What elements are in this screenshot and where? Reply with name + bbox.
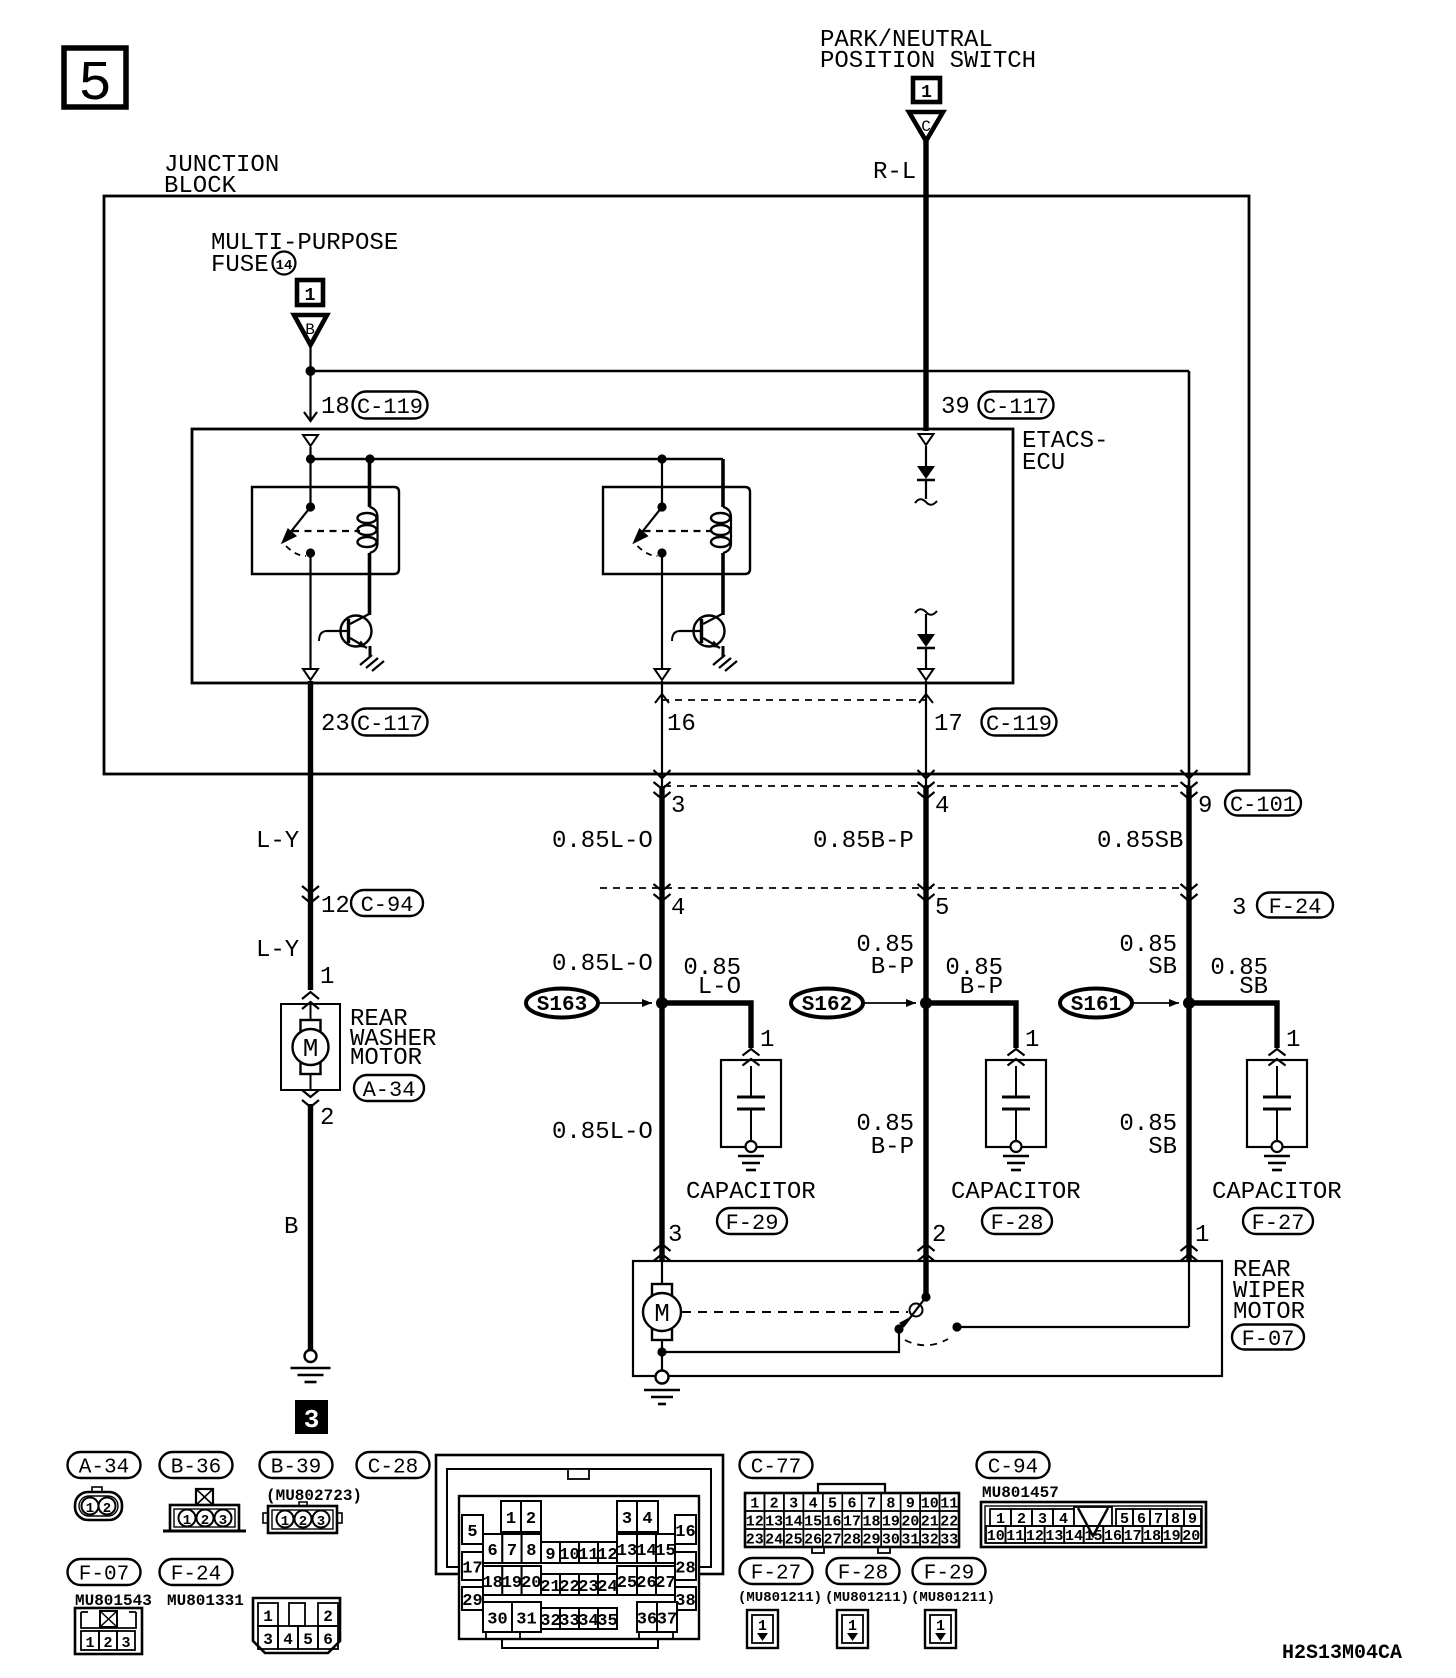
- dashed connector row C-101: [664, 785, 1188, 787]
- capacitor F-29 bottom lead: [750, 1109, 752, 1141]
- svg-text:0.85B-P: 0.85B-P: [813, 828, 914, 855]
- svg-text:4: 4: [935, 793, 949, 820]
- svg-text:1: 1: [848, 1618, 857, 1635]
- svg-text:14: 14: [276, 258, 293, 274]
- relay K2 common contact node: [657, 502, 666, 511]
- ground (capacitor F-28): [1003, 1155, 1029, 1158]
- connector capsule F-28: [982, 1208, 1052, 1234]
- svg-text:13: 13: [765, 1514, 783, 1531]
- wiper motor lead top: [661, 1261, 663, 1284]
- svg-text:3: 3: [668, 1222, 682, 1249]
- wire washer to ground (B): [308, 1104, 313, 1350]
- svg-text:SB: SB: [1239, 974, 1268, 1001]
- svg-text:21: 21: [540, 1578, 560, 1597]
- svg-text:L-O: L-O: [698, 974, 741, 1001]
- svg-text:35: 35: [597, 1612, 617, 1631]
- svg-text:B-P: B-P: [871, 1134, 914, 1161]
- svg-text:1: 1: [281, 1514, 289, 1530]
- svg-text:2: 2: [526, 1510, 536, 1529]
- svg-text:F-27: F-27: [1252, 1211, 1305, 1236]
- relay K2 coil to transistor wire: [721, 553, 725, 615]
- svg-text:H2S13M04CA: H2S13M04CA: [1282, 1642, 1402, 1665]
- svg-text:32: 32: [921, 1532, 939, 1549]
- relay K2 lower contact node: [657, 548, 666, 557]
- dashed mechanical link motor to switch: [682, 1311, 908, 1313]
- node fuse junction: [306, 366, 316, 376]
- svg-text:1: 1: [921, 83, 932, 103]
- svg-text:A-34: A-34: [363, 1078, 416, 1103]
- capacitor F-27 box: [1247, 1060, 1307, 1147]
- relay K1 coil: [358, 507, 378, 553]
- wire 3 row2 to wiper motor: [1186, 888, 1191, 1261]
- svg-text:R-L: R-L: [873, 159, 916, 186]
- connector capsule C-117 (pin 23): [353, 709, 428, 736]
- node splice S162: [920, 997, 932, 1009]
- connector view F-28: [837, 1610, 868, 1648]
- svg-text:15: 15: [1084, 1528, 1102, 1545]
- svg-text:5: 5: [828, 1496, 837, 1513]
- connector capsule F-27: [1243, 1208, 1313, 1234]
- svg-text:29: 29: [862, 1532, 880, 1549]
- svg-text:FUSE: FUSE: [211, 252, 269, 279]
- svg-text:2: 2: [770, 1496, 779, 1513]
- svg-text:20: 20: [901, 1514, 919, 1531]
- svg-text:CAPACITOR: CAPACITOR: [686, 1179, 816, 1206]
- relay K1 movable arm with arrowhead: [289, 507, 311, 534]
- label REAR WIPER MOTOR: [1233, 1257, 1305, 1326]
- ground (washer motor): [291, 1367, 331, 1370]
- svg-text:ECU: ECU: [1022, 450, 1065, 477]
- washer motor lead bottom: [310, 1074, 312, 1090]
- fuse connector triangle B: [294, 315, 327, 345]
- svg-text:19: 19: [882, 1514, 900, 1531]
- connector label capsule F-24: [160, 1559, 233, 1585]
- splice S163: [526, 989, 652, 1018]
- svg-text:C-94: C-94: [988, 1456, 1038, 1479]
- svg-text:6: 6: [847, 1496, 856, 1513]
- svg-text:26: 26: [636, 1574, 656, 1593]
- svg-text:3: 3: [622, 1510, 632, 1529]
- wiper park switch arm: [903, 1297, 926, 1327]
- capacitor F-28 element: [1002, 1096, 1030, 1099]
- label JUNCTION BLOCK: [164, 152, 279, 200]
- svg-text:5: 5: [78, 52, 112, 116]
- connector view C-28: [436, 1455, 723, 1648]
- svg-text:1: 1: [183, 1513, 191, 1529]
- svg-text:11: 11: [1006, 1528, 1024, 1545]
- svg-text:MU801457: MU801457: [982, 1484, 1059, 1502]
- svg-text:20: 20: [521, 1574, 541, 1593]
- relay K2 coil: [711, 507, 731, 553]
- svg-text:17: 17: [934, 711, 963, 738]
- relay K1 box: [252, 487, 399, 574]
- svg-text:12: 12: [1026, 1528, 1044, 1545]
- svg-text:9: 9: [906, 1496, 915, 1513]
- svg-text:0.85L-O: 0.85L-O: [552, 951, 653, 978]
- wire from fuse B down to node: [309, 345, 311, 371]
- svg-text:14: 14: [1065, 1528, 1083, 1545]
- svg-text:F-27: F-27: [751, 1562, 801, 1585]
- svg-text:C-119: C-119: [986, 712, 1052, 737]
- capacitor F-27 element: [1263, 1096, 1291, 1099]
- svg-text:10: 10: [559, 1546, 579, 1565]
- node wiper motor low side: [657, 1347, 666, 1356]
- wire 3 (0.85SB) row1-row2: [1186, 786, 1191, 888]
- ground circle (wiper): [656, 1371, 669, 1384]
- connector chevrons into capacitor F-27: [1269, 1049, 1286, 1066]
- internal supply wire: [309, 447, 311, 459]
- connector capsule F-24: [1257, 893, 1333, 918]
- svg-text:MU801331: MU801331: [167, 1592, 244, 1610]
- connector view C-77: [745, 1484, 959, 1553]
- connector view A-34: [75, 1487, 122, 1520]
- svg-text:14: 14: [785, 1514, 803, 1531]
- ETACS-ECU box: [192, 429, 1013, 683]
- svg-text:1: 1: [936, 1618, 945, 1635]
- connector chevrons wiper wire 2: [918, 1244, 935, 1261]
- svg-text:19: 19: [1163, 1528, 1181, 1545]
- svg-text:28: 28: [675, 1560, 695, 1579]
- svg-text:A-34: A-34: [79, 1456, 129, 1479]
- squiggle (circuit continues) top: [915, 499, 937, 505]
- svg-text:5: 5: [935, 895, 949, 922]
- connector label capsule F-27: [740, 1558, 813, 1584]
- wire pin 16 down: [661, 681, 663, 788]
- svg-text:B: B: [305, 321, 315, 339]
- svg-text:L-Y: L-Y: [256, 828, 299, 855]
- svg-text:S161: S161: [1071, 994, 1121, 1017]
- ground (Q1 emitter): [360, 655, 384, 671]
- wire motor low side to switch contact: [662, 1330, 899, 1352]
- svg-text:1: 1: [320, 964, 334, 991]
- connector crossing chevrons wire 3 row 2: [1181, 884, 1198, 901]
- svg-text:7: 7: [867, 1496, 876, 1513]
- capacitor F-27 bottom lead: [1276, 1109, 1278, 1141]
- svg-text:4: 4: [283, 1631, 293, 1649]
- motor M (rear washer): [301, 1020, 321, 1031]
- svg-text:38: 38: [675, 1592, 695, 1611]
- ground circle (washer): [305, 1350, 317, 1362]
- svg-text:3: 3: [1232, 895, 1246, 922]
- wire pin 39 to diode D1: [925, 446, 927, 466]
- wire R-L from park/neutral switch: [923, 141, 928, 431]
- rear washer motor box: [281, 1004, 340, 1090]
- svg-text:15: 15: [804, 1514, 822, 1531]
- svg-text:34: 34: [578, 1612, 598, 1631]
- wire 3 into wiper box: [1188, 1261, 1190, 1327]
- connector capsule C-119 (pin 17): [982, 709, 1057, 736]
- connector crossing chevrons wire 3 row 1: [1181, 782, 1198, 799]
- park/neutral position switch pin box 1: [913, 78, 940, 103]
- svg-text:9: 9: [545, 1546, 555, 1565]
- transistor Q1 emitter wire: [369, 646, 372, 657]
- wire 2 into switch: [923, 1261, 928, 1297]
- svg-text:17: 17: [462, 1560, 482, 1579]
- svg-text:16: 16: [824, 1514, 842, 1531]
- svg-text:2: 2: [299, 1514, 307, 1530]
- connector label capsule A-34: [68, 1452, 141, 1478]
- svg-text:F-28: F-28: [838, 1562, 888, 1585]
- svg-text:(MU802723): (MU802723): [266, 1487, 362, 1505]
- svg-text:F-07: F-07: [79, 1563, 129, 1586]
- connector capsule C-94 (pin 12): [351, 890, 423, 916]
- svg-text:33: 33: [940, 1532, 958, 1549]
- relay K2 mechanical link (dashed): [644, 530, 712, 532]
- svg-text:F-28: F-28: [991, 1211, 1044, 1236]
- relay K2 movable arm with arrowhead: [641, 507, 663, 534]
- branch label 0.85 L-O: [683, 955, 741, 1001]
- arrowhead up on pin16 wire: [655, 694, 669, 703]
- node supply B (coil 1): [365, 454, 374, 463]
- wire right branch down (junction block to pin 9): [1188, 371, 1191, 788]
- svg-text:6: 6: [323, 1631, 333, 1649]
- park/neutral position switch connector triangle C: [909, 112, 943, 141]
- capacitor F-27 top lead: [1276, 1066, 1278, 1097]
- svg-text:19: 19: [502, 1574, 522, 1593]
- svg-text:22: 22: [940, 1514, 958, 1531]
- svg-text:37: 37: [657, 1611, 677, 1630]
- wire fuse down to ETACS pin 18 with arrowhead: [309, 371, 311, 420]
- svg-text:3: 3: [789, 1496, 798, 1513]
- svg-text:1: 1: [758, 1618, 767, 1635]
- svg-text:24: 24: [597, 1578, 617, 1597]
- label REAR WASHER MOTOR: [350, 1006, 436, 1072]
- dashed connector line between pin16/pin17 wires: [662, 699, 926, 701]
- ground (capacitor F-29): [738, 1155, 764, 1158]
- svg-text:31: 31: [901, 1532, 919, 1549]
- connector chevrons into capacitor F-29: [743, 1049, 760, 1066]
- svg-text:12: 12: [597, 1546, 617, 1565]
- svg-text:5: 5: [303, 1631, 313, 1649]
- wire squiggle to diode D2: [925, 614, 927, 634]
- capacitor F-29 box: [721, 1060, 781, 1147]
- connector label capsule C-28: [357, 1452, 430, 1478]
- node splice S161: [1183, 997, 1195, 1009]
- svg-text:13: 13: [617, 1542, 637, 1561]
- wire label 0.85 SB row2 (left): [1119, 932, 1177, 981]
- svg-text:2: 2: [103, 1501, 111, 1517]
- svg-text:23: 23: [746, 1532, 764, 1549]
- relay K1 coil feed wire: [368, 459, 372, 507]
- wire branch to capacitor F-28: [926, 1003, 1016, 1048]
- svg-text:21: 21: [921, 1514, 939, 1531]
- svg-text:1: 1: [1195, 1222, 1209, 1249]
- svg-text:F-07: F-07: [1242, 1327, 1295, 1352]
- transistor Q1: [319, 614, 372, 649]
- svg-text:0.85L-O: 0.85L-O: [552, 1119, 653, 1146]
- svg-text:10: 10: [921, 1496, 939, 1513]
- svg-text:F-29: F-29: [726, 1211, 779, 1236]
- svg-text:25: 25: [617, 1574, 637, 1593]
- wire 1 row2 to wiper motor: [659, 888, 664, 1261]
- label PARK/NEUTRAL POSITION SWITCH: [820, 27, 1036, 75]
- svg-text:8: 8: [886, 1496, 895, 1513]
- svg-text:S163: S163: [537, 994, 587, 1017]
- ground reference black box 3: [296, 1401, 327, 1435]
- svg-text:16: 16: [675, 1523, 695, 1542]
- svg-text:MOTOR: MOTOR: [1233, 1299, 1305, 1326]
- squiggle (circuit continues) bottom: [915, 609, 937, 615]
- svg-text:4: 4: [671, 895, 685, 922]
- node splice S163: [656, 997, 668, 1009]
- svg-text:C-94: C-94: [361, 893, 414, 918]
- svg-text:C-117: C-117: [357, 712, 423, 737]
- connector capsule F-07: [1232, 1325, 1304, 1350]
- svg-text:18: 18: [1143, 1528, 1161, 1545]
- relay K1 travel arc (dashed): [286, 546, 306, 556]
- wire 2 row2 to wiper motor: [923, 888, 928, 1261]
- svg-text:11: 11: [578, 1546, 598, 1565]
- switch cam follower loop: [910, 1304, 923, 1317]
- svg-text:2: 2: [320, 1105, 334, 1132]
- ETACS pin 16 exit triangle: [655, 669, 670, 680]
- svg-text:L-Y: L-Y: [256, 937, 299, 964]
- relay K1 lower contact node: [306, 548, 315, 557]
- svg-text:14: 14: [636, 1542, 656, 1561]
- capacitor F-27 ground circle: [1272, 1141, 1283, 1152]
- svg-text:F-24: F-24: [171, 1563, 221, 1586]
- svg-text:(MU801211): (MU801211): [738, 1590, 822, 1606]
- switch travel arc (dashed): [905, 1339, 948, 1345]
- wire branch to capacitor F-29: [662, 1003, 751, 1048]
- svg-text:B-36: B-36: [171, 1456, 221, 1479]
- ground (wiper motor): [644, 1389, 680, 1392]
- svg-text:4: 4: [809, 1496, 818, 1513]
- transistor Q2: [672, 614, 725, 649]
- svg-text:28: 28: [843, 1532, 861, 1549]
- relay K1 switch common wire: [309, 459, 311, 507]
- svg-text:1: 1: [305, 286, 316, 306]
- svg-text:24: 24: [765, 1532, 783, 1549]
- connector view F-27: [747, 1610, 778, 1648]
- capacitor F-29 top lead: [750, 1066, 752, 1097]
- svg-text:3: 3: [263, 1631, 273, 1649]
- svg-text:17: 17: [843, 1514, 861, 1531]
- svg-text:2: 2: [201, 1513, 209, 1529]
- node supply C (relay 2 common): [657, 454, 666, 463]
- wire 2 (0.85B-P) row1-row2: [923, 786, 928, 888]
- svg-text:30: 30: [882, 1532, 900, 1549]
- svg-text:M: M: [654, 1299, 670, 1329]
- svg-text:1: 1: [750, 1496, 759, 1513]
- connector capsule C-101: [1225, 791, 1301, 816]
- svg-text:7: 7: [507, 1542, 517, 1561]
- rear wiper motor box: [633, 1261, 1222, 1376]
- wiper motor lead bottom: [661, 1340, 663, 1371]
- connector view B-36: [163, 1489, 246, 1531]
- connector label capsule F-07: [68, 1559, 141, 1585]
- node supply A: [306, 454, 315, 463]
- svg-text:F-24: F-24: [1269, 895, 1322, 920]
- branch label 0.85 B-P: [945, 955, 1003, 1001]
- svg-text:F-29: F-29: [924, 1562, 974, 1585]
- svg-text:B-P: B-P: [960, 974, 1003, 1001]
- wire run contact to wire 3: [957, 1326, 1189, 1328]
- connector capsule C-117 (pin 39): [979, 392, 1054, 419]
- svg-text:9: 9: [1198, 793, 1212, 820]
- motor M (rear wiper): [652, 1284, 672, 1295]
- svg-text:27: 27: [655, 1574, 675, 1593]
- branch label 0.85 SB: [1210, 955, 1268, 1001]
- wire branch to capacitor F-27: [1189, 1003, 1277, 1048]
- svg-text:13: 13: [1045, 1528, 1063, 1545]
- svg-text:3: 3: [219, 1513, 227, 1529]
- wire label 0.85 SB row3: [1119, 1111, 1177, 1161]
- svg-text:CAPACITOR: CAPACITOR: [951, 1179, 1081, 1206]
- connector view F-24: [253, 1598, 340, 1653]
- junction block exit chevron wire 3: [1181, 770, 1198, 779]
- connector chevrons wiper wire 3: [1181, 1244, 1198, 1261]
- relay K1 output wire to pin 23: [309, 553, 311, 668]
- connector capsule A-34: [354, 1075, 424, 1101]
- svg-text:5: 5: [467, 1523, 477, 1542]
- svg-text:3: 3: [121, 1635, 130, 1652]
- relay K2 coil feed wire: [721, 459, 725, 507]
- ETACS pin 17 exit triangle: [919, 669, 934, 680]
- svg-text:1: 1: [85, 1635, 94, 1652]
- svg-text:0.85SB: 0.85SB: [1097, 828, 1183, 855]
- relay K1 mechanical link (dashed): [292, 530, 360, 532]
- diode D2: [917, 634, 935, 647]
- splice S161: [1060, 989, 1179, 1018]
- connector view F-07: [75, 1608, 142, 1654]
- svg-text:23: 23: [321, 711, 350, 738]
- svg-text:32: 32: [540, 1612, 560, 1631]
- relay K2 travel arc (dashed): [638, 546, 658, 556]
- junction block outline: [104, 196, 1249, 774]
- wire D2 to pin 17: [925, 648, 927, 668]
- connector label capsule C-94: [977, 1452, 1050, 1478]
- svg-text:2: 2: [103, 1635, 112, 1652]
- svg-text:12: 12: [746, 1514, 764, 1531]
- svg-text:S162: S162: [802, 994, 852, 1017]
- connector crossing chevrons wire 2 row 2: [918, 884, 935, 901]
- svg-text:4: 4: [642, 1510, 652, 1529]
- svg-text:CAPACITOR: CAPACITOR: [1212, 1179, 1342, 1206]
- fuse pin box 1: [297, 280, 323, 306]
- capacitor F-29 element: [737, 1096, 765, 1099]
- svg-text:C-117: C-117: [983, 395, 1049, 420]
- capacitor F-29 ground circle: [746, 1141, 757, 1152]
- svg-text:SB: SB: [1148, 954, 1177, 981]
- connector crossing chevrons wire 2 row 1: [918, 782, 935, 799]
- svg-text:(MU801211): (MU801211): [911, 1590, 995, 1606]
- svg-text:26: 26: [804, 1532, 822, 1549]
- relay K1 common contact node: [306, 502, 315, 511]
- connector chevrons wiper wire 1: [654, 1244, 671, 1261]
- svg-text:30: 30: [487, 1611, 507, 1630]
- junction block exit chevron wire 2: [918, 770, 935, 779]
- wire washer down: [308, 774, 313, 990]
- svg-text:29: 29: [462, 1592, 482, 1611]
- svg-text:C-119: C-119: [357, 395, 423, 420]
- capacitor F-28 top lead: [1015, 1066, 1017, 1097]
- svg-text:1: 1: [760, 1027, 774, 1054]
- connector chevrons into capacitor F-28: [1008, 1049, 1025, 1066]
- svg-text:3: 3: [671, 793, 685, 820]
- svg-text:0.85L-O: 0.85L-O: [552, 828, 653, 855]
- dashed connector row F-24: [600, 887, 1192, 889]
- svg-text:B-39: B-39: [271, 1456, 321, 1479]
- connector view C-94: [981, 1502, 1206, 1547]
- arrowhead up on pin17 wire: [919, 694, 933, 703]
- svg-text:C: C: [921, 118, 931, 136]
- svg-text:1: 1: [86, 1501, 94, 1517]
- svg-text:3: 3: [317, 1514, 325, 1530]
- svg-text:39: 39: [941, 394, 970, 421]
- ETACS pin 18 entry triangle: [303, 435, 318, 446]
- page number box 5: [64, 48, 126, 116]
